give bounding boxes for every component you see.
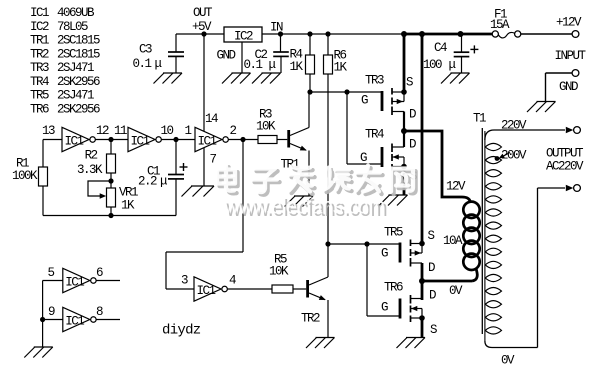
svg-text:IC1: IC1 bbox=[198, 135, 217, 149]
svg-text:10K: 10K bbox=[256, 120, 276, 134]
svg-text:IC1: IC1 bbox=[197, 284, 216, 298]
svg-text:+5V: +5V bbox=[192, 20, 212, 34]
svg-text:IC1: IC1 bbox=[65, 315, 84, 329]
svg-text:5: 5 bbox=[48, 266, 55, 280]
svg-text:S: S bbox=[406, 75, 413, 89]
svg-text:C3: C3 bbox=[139, 43, 152, 57]
svg-text:TR4: TR4 bbox=[30, 75, 49, 89]
svg-text:TR3: TR3 bbox=[365, 73, 384, 87]
svg-text:4: 4 bbox=[229, 274, 236, 288]
svg-text:OUT: OUT bbox=[193, 6, 213, 20]
svg-text:IC1: IC1 bbox=[65, 135, 84, 149]
svg-text:9: 9 bbox=[48, 305, 55, 319]
svg-text:S: S bbox=[428, 229, 435, 243]
svg-text:IC1: IC1 bbox=[30, 6, 49, 20]
svg-text:10A: 10A bbox=[443, 234, 463, 248]
svg-text:TR2: TR2 bbox=[301, 311, 320, 325]
svg-text:TR1: TR1 bbox=[30, 34, 49, 48]
svg-text:0.1: 0.1 bbox=[244, 58, 263, 72]
svg-text:IC2: IC2 bbox=[234, 30, 253, 44]
svg-text:13: 13 bbox=[42, 124, 55, 138]
svg-text:4069UB: 4069UB bbox=[57, 6, 95, 20]
svg-text:D: D bbox=[409, 138, 416, 152]
svg-text:3: 3 bbox=[181, 274, 188, 288]
svg-text:diydz: diydz bbox=[162, 323, 201, 339]
svg-text:2SK2956: 2SK2956 bbox=[57, 102, 100, 116]
svg-text:1K: 1K bbox=[334, 61, 348, 75]
svg-text:D: D bbox=[428, 261, 435, 275]
svg-text:2SC1815: 2SC1815 bbox=[57, 34, 100, 48]
svg-text:TR5: TR5 bbox=[30, 89, 49, 103]
svg-text:OUTPUT: OUTPUT bbox=[546, 147, 584, 161]
svg-text:200V: 200V bbox=[501, 148, 527, 162]
svg-text:AC220V: AC220V bbox=[546, 160, 584, 174]
svg-text:12V: 12V bbox=[446, 180, 466, 194]
svg-text:TR4: TR4 bbox=[365, 128, 384, 142]
svg-text:2SJ471: 2SJ471 bbox=[57, 61, 94, 75]
svg-text:TR3: TR3 bbox=[30, 61, 49, 75]
svg-text:G: G bbox=[361, 93, 368, 107]
svg-text:INPUT: INPUT bbox=[555, 49, 587, 63]
svg-text:GND: GND bbox=[559, 80, 578, 94]
svg-text:10K: 10K bbox=[269, 265, 289, 279]
svg-text:11: 11 bbox=[114, 124, 127, 138]
svg-text:1K: 1K bbox=[290, 60, 304, 74]
svg-text:TR2: TR2 bbox=[30, 47, 49, 61]
svg-text:GND: GND bbox=[217, 49, 236, 63]
svg-text:78L05: 78L05 bbox=[57, 20, 88, 34]
svg-text:IC1: IC1 bbox=[131, 135, 150, 149]
svg-text:0.1: 0.1 bbox=[133, 57, 152, 71]
svg-text:D: D bbox=[409, 107, 416, 121]
svg-text:IC1: IC1 bbox=[65, 276, 84, 290]
svg-text:1K: 1K bbox=[121, 199, 135, 213]
svg-text:7: 7 bbox=[210, 153, 217, 167]
svg-text:TR6: TR6 bbox=[384, 281, 403, 295]
svg-text:2SC1815: 2SC1815 bbox=[57, 47, 100, 61]
svg-text:R2: R2 bbox=[85, 148, 98, 162]
svg-text:0V: 0V bbox=[449, 284, 463, 298]
svg-text:6: 6 bbox=[96, 266, 103, 280]
svg-text:2.2: 2.2 bbox=[138, 174, 157, 188]
svg-text:2SK2956: 2SK2956 bbox=[57, 75, 100, 89]
svg-text:TR5: TR5 bbox=[384, 225, 403, 239]
svg-text:1: 1 bbox=[185, 124, 192, 138]
svg-text:12: 12 bbox=[96, 124, 109, 138]
svg-text:G: G bbox=[381, 301, 388, 315]
svg-text:10: 10 bbox=[161, 124, 174, 138]
svg-text:D: D bbox=[429, 288, 436, 302]
svg-text:100K: 100K bbox=[12, 169, 38, 183]
svg-text:+12V: +12V bbox=[556, 16, 582, 30]
svg-text:T1: T1 bbox=[473, 112, 486, 126]
svg-text:2: 2 bbox=[230, 124, 237, 138]
svg-text:14: 14 bbox=[205, 112, 218, 126]
svg-text:www.elecfans.com: www.elecfans.com bbox=[223, 192, 384, 219]
svg-text:G: G bbox=[360, 151, 367, 165]
svg-text:S: S bbox=[430, 323, 437, 337]
svg-text:VR1: VR1 bbox=[119, 186, 138, 200]
svg-text:TR6: TR6 bbox=[30, 102, 49, 116]
svg-text:220V: 220V bbox=[501, 118, 527, 132]
svg-text:15A: 15A bbox=[490, 18, 510, 32]
svg-text:100: 100 bbox=[423, 58, 442, 72]
svg-text:C4: C4 bbox=[434, 41, 447, 55]
svg-text:3.3K: 3.3K bbox=[77, 163, 103, 177]
svg-text:8: 8 bbox=[96, 305, 103, 319]
svg-text:IC2: IC2 bbox=[30, 20, 49, 34]
svg-text:0V: 0V bbox=[501, 354, 515, 368]
svg-text:2SJ471: 2SJ471 bbox=[57, 89, 94, 103]
svg-text:G: G bbox=[381, 247, 388, 261]
